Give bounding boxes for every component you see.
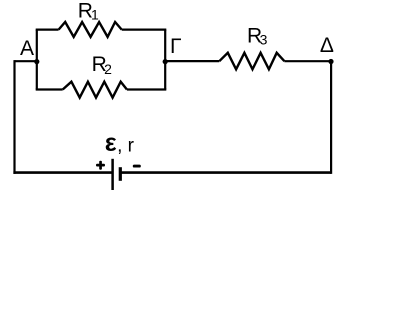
- resistor R1: [59, 22, 122, 37]
- wire: bottom branch lead from R2 to Γ bar: [127, 88, 166, 90]
- svg-text:, r: , r: [117, 135, 135, 156]
- wire: lead from R3 to node Δ: [284, 60, 331, 62]
- wire: middle lead from node Γ to R3: [165, 60, 219, 62]
- wire: vertical junction bar through node Γ: [164, 30, 166, 90]
- wire: bottom branch lead from A bar to R2: [36, 88, 63, 90]
- wire: right vertical from node Δ down to bottom rail: [330, 61, 332, 173]
- wire: left vertical from node A stub down to bottom rail: [13, 60, 15, 174]
- wire: vertical junction bar through node A: [36, 30, 38, 90]
- svg-text:Δ: Δ: [320, 34, 334, 57]
- wire: bottom rail right segment from battery negative plate to right vertical: [120, 171, 331, 174]
- resistor R2: [63, 82, 127, 98]
- node A (junction dot): [34, 59, 39, 64]
- resistor R3: [219, 53, 284, 70]
- battery polarity: plus sign: [96, 161, 105, 170]
- svg-text:Γ: Γ: [170, 35, 182, 58]
- node Δ (junction dot): [328, 59, 333, 64]
- svg-text:2: 2: [104, 61, 112, 77]
- battery cell ε,r: short negative plate: [119, 167, 122, 181]
- wire: top branch lead from A bar to R1: [36, 29, 59, 31]
- wire: left stub from left vertical to node A: [15, 60, 37, 62]
- svg-text:1: 1: [91, 7, 99, 23]
- wire: top branch lead from R1 to Γ bar: [122, 29, 167, 31]
- svg-text:A: A: [20, 37, 34, 60]
- node Γ (junction dot): [163, 59, 168, 64]
- battery polarity: minus sign: [133, 165, 141, 168]
- svg-text:ε: ε: [105, 129, 117, 157]
- svg-text:3: 3: [260, 31, 268, 47]
- battery cell ε,r: long positive plate: [111, 159, 114, 190]
- wire: bottom rail left segment to battery positive plate: [13, 171, 112, 174]
